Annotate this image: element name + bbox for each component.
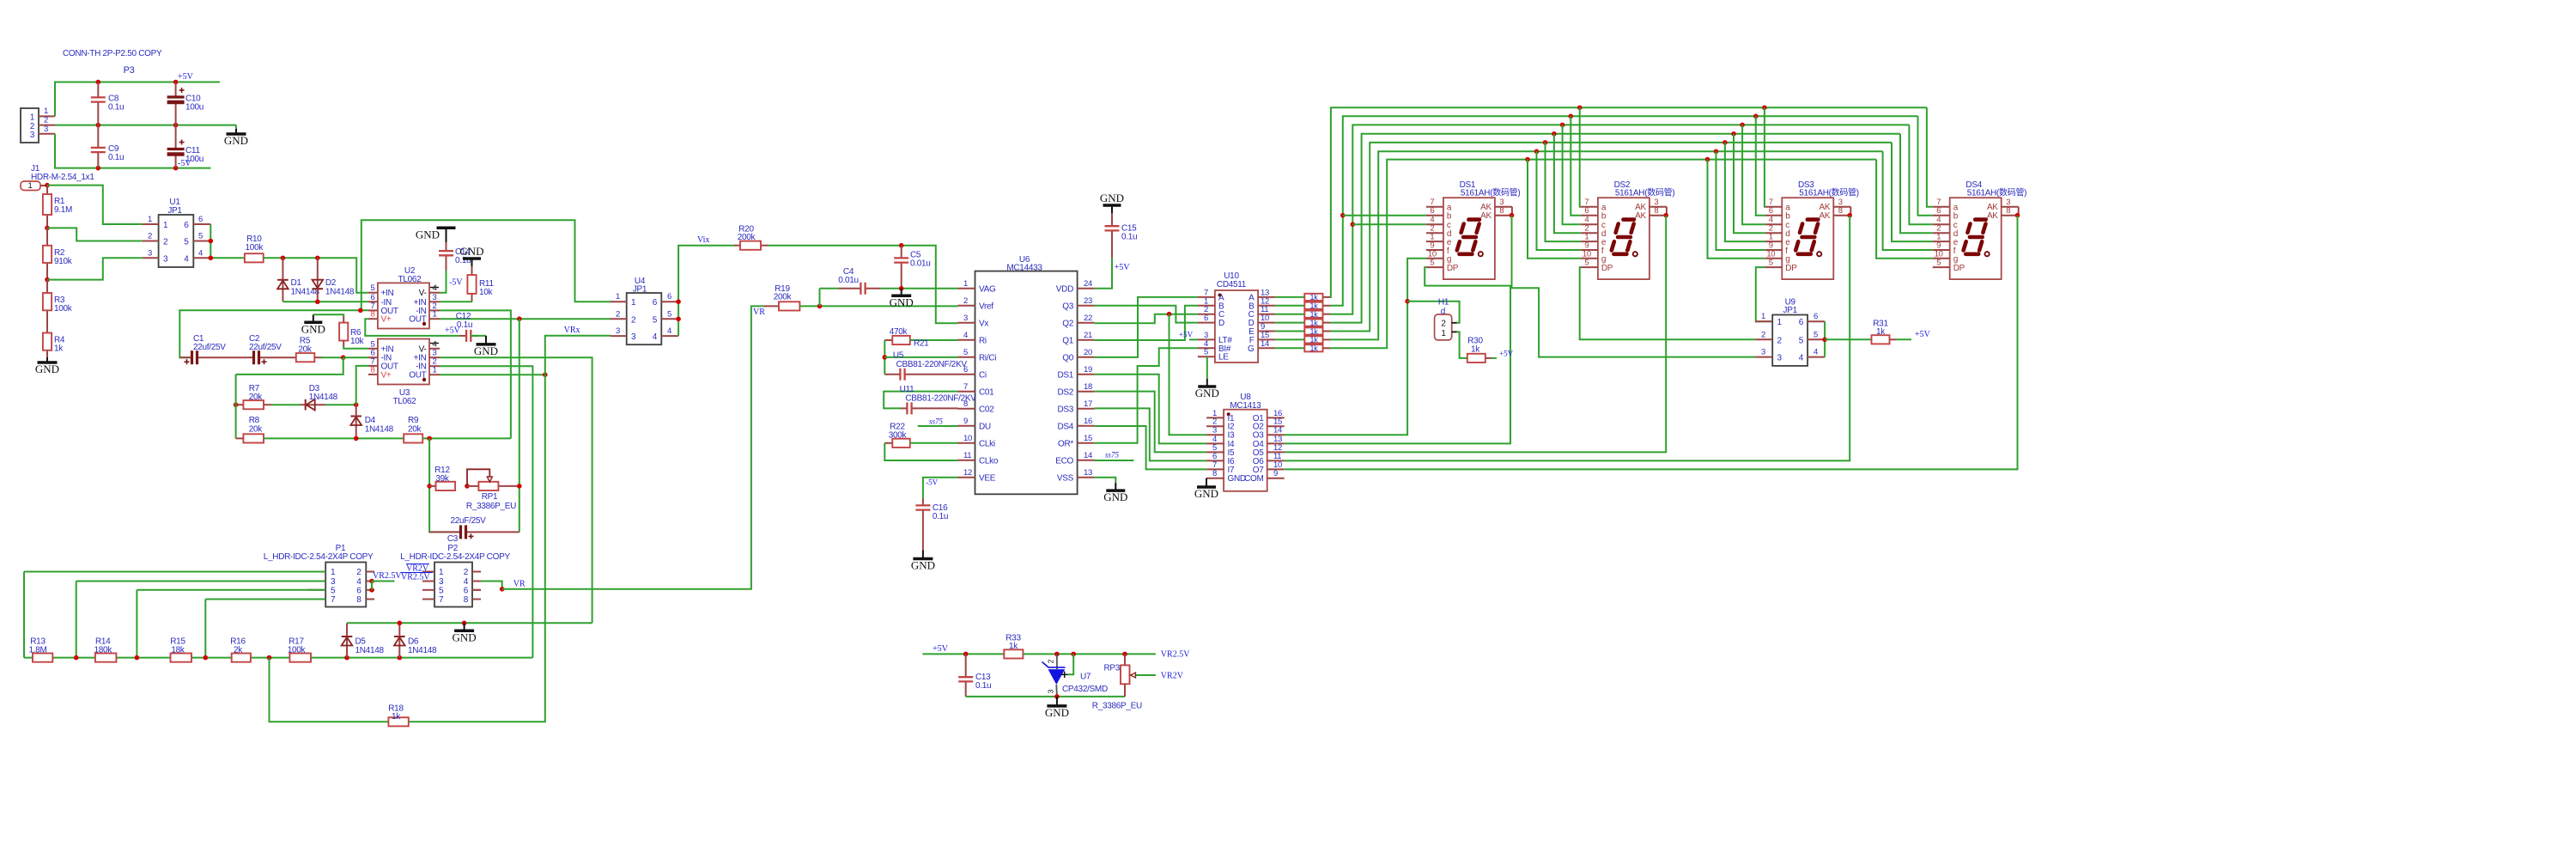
resistor R33 [1004, 649, 1023, 658]
svg-text:VRx: VRx [564, 326, 580, 335]
resistor R19 [763, 305, 779, 307]
svg-text:2: 2 [464, 568, 469, 577]
resistor R20 [734, 245, 740, 247]
pin 14 of U6 [1078, 460, 1095, 461]
wire U10 output A to bus [1275, 296, 1304, 298]
junction [45, 183, 50, 188]
svg-text:2: 2 [1777, 336, 1783, 345]
svg-text:6: 6 [1204, 314, 1208, 323]
wire R2-R3 node to U1 pin3 [47, 258, 143, 279]
pin 16 of U8 [1267, 417, 1285, 418]
svg-text:C02: C02 [979, 405, 994, 414]
pin 10 of DS1 [1426, 258, 1443, 259]
capacitor C13 [965, 654, 967, 677]
wire R22 to CLko [884, 443, 957, 460]
ground [235, 125, 237, 129]
pin 2 of U2 [429, 309, 440, 311]
pin 1 of U8 [1206, 417, 1224, 418]
pin 5 of DS3 [1765, 266, 1782, 268]
svg-text:Q3: Q3 [1062, 302, 1073, 311]
wire U3 OUT right VRx [440, 374, 545, 375]
pin 11 of U6 [958, 460, 975, 461]
wire P1 pin4 to VR2.5V [372, 581, 394, 582]
svg-text:DP: DP [1601, 264, 1613, 273]
junction [500, 587, 505, 592]
ground above C14 [446, 228, 447, 242]
digit glyph of DS2 [1612, 220, 1634, 254]
junction [96, 80, 101, 85]
svg-text:1: 1 [1441, 329, 1446, 338]
digit glyph of DS4 [1964, 220, 1986, 254]
wire Q1 to U10 B [1095, 306, 1198, 340]
svg-text:1k: 1k [1876, 327, 1886, 337]
wire bus F tap to DS3 f [1714, 149, 1719, 155]
svg-text:ss75: ss75 [1105, 451, 1120, 460]
pin 6 of U10 [1198, 322, 1215, 324]
diode D4 [355, 417, 357, 439]
svg-text:1: 1 [28, 181, 33, 191]
svg-text:1: 1 [331, 568, 336, 577]
junction [209, 256, 214, 261]
wire bus F tap to DS2 f [1534, 149, 1540, 155]
svg-text:100u: 100u [185, 103, 204, 113]
svg-text:b: b [1601, 212, 1607, 222]
wire U9 pins 6-5-4 tie [1824, 321, 1826, 356]
svg-text:1N4148: 1N4148 [408, 646, 437, 655]
svg-text:8: 8 [1654, 206, 1658, 216]
pin 7 of U3 [368, 365, 378, 367]
wire VR line to R19 [502, 306, 764, 588]
wire input divider chain [24, 657, 532, 659]
svg-text:5: 5 [371, 283, 375, 293]
pin 20 of U6 [1078, 356, 1095, 358]
capacitor C14 [446, 242, 447, 251]
svg-text:D5: D5 [355, 637, 367, 647]
wire R10 output [264, 258, 368, 292]
pin 17 of U6 [1078, 408, 1095, 410]
pin 2 of U8 [1206, 425, 1224, 427]
svg-text:GND: GND [1194, 487, 1218, 500]
pin 1 of U1 [143, 223, 159, 225]
junction [899, 286, 904, 291]
svg-text:11: 11 [963, 451, 971, 460]
svg-text:AK: AK [1480, 211, 1492, 221]
wire U2 OUT to U4 pin2 [440, 318, 611, 320]
ground at VAG [901, 289, 902, 296]
pin 5 of U10 [1198, 356, 1215, 357]
pin 2 of P3 [39, 125, 55, 126]
svg-text:H1: H1 [1438, 298, 1449, 308]
svg-text:6: 6 [1936, 206, 1941, 216]
svg-text:1k: 1k [1310, 344, 1319, 353]
svg-text:b: b [1953, 212, 1959, 222]
pin 6 of U4 [661, 301, 678, 302]
wire bus C tap to DS1 c [1351, 222, 1356, 227]
pin 6 of U9 [1807, 320, 1825, 322]
svg-text:DP: DP [1953, 264, 1965, 273]
pin 4 of U4 [661, 335, 678, 337]
svg-text:Vref: Vref [979, 302, 993, 311]
svg-text:TL062: TL062 [393, 397, 417, 406]
wire bus G tap to DS2 g [1525, 157, 1530, 162]
pin 8 of P1 [366, 599, 374, 600]
svg-text:1N4148: 1N4148 [325, 288, 355, 297]
svg-text:GND: GND [35, 362, 59, 375]
pin 11 of U8 [1267, 460, 1285, 461]
svg-text:8: 8 [464, 595, 469, 605]
pin 6 of DS4 [1933, 215, 1950, 216]
resistor 1k segment 1 [1304, 294, 1322, 301]
pin 8 of U8 [1206, 478, 1224, 479]
junction [354, 402, 359, 407]
svg-text:2: 2 [148, 232, 152, 241]
pin 12 of U10 [1258, 305, 1275, 307]
junction [45, 226, 50, 231]
pin 1 of U4 [611, 301, 627, 302]
pin 5 of U2 [368, 292, 378, 294]
svg-text:5: 5 [653, 315, 658, 325]
junction [398, 621, 403, 626]
junction [173, 80, 179, 85]
pin 9 of DS4 [1933, 249, 1950, 251]
resistor 1k segment 6 [1304, 336, 1322, 343]
wire U10 output B to bus [1275, 305, 1304, 307]
pin 7 of DS4 [1933, 206, 1950, 208]
svg-text:2: 2 [963, 296, 968, 306]
svg-text:6: 6 [1769, 206, 1773, 216]
pin 7 of U2 [368, 309, 378, 311]
wire DS1 to U8 I4 [1095, 375, 1207, 444]
junction [204, 655, 209, 661]
resistor R30 [1467, 354, 1485, 362]
svg-text:OUT: OUT [409, 371, 426, 381]
svg-text:b: b [1447, 212, 1452, 222]
svg-text:0.01u: 0.01u [910, 259, 931, 269]
svg-text:3: 3 [1047, 689, 1055, 693]
wire Vref line [799, 305, 957, 307]
svg-text:CLko: CLko [979, 456, 999, 466]
wire bus B tap to DS2 b [1569, 114, 1574, 119]
svg-text:0.1u: 0.1u [457, 320, 472, 330]
pin 4 of U1 [193, 257, 210, 259]
ground at U8 [1206, 478, 1207, 480]
resistor 1k segment 5 [1304, 327, 1322, 334]
pin 3 of U4 [611, 335, 627, 337]
pin 24 of U6 [1078, 288, 1095, 289]
pin 23 of U6 [1078, 305, 1095, 307]
svg-text:GND: GND [453, 630, 477, 643]
svg-text:1k: 1k [1310, 327, 1319, 336]
svg-text:AK: AK [1820, 211, 1831, 221]
pin 1 of U2 [429, 318, 440, 320]
wire D5 D6 top rail [347, 622, 592, 624]
junction [281, 256, 286, 261]
wire AK2 to U8 O5 [1285, 216, 1667, 453]
capacitor C2 [248, 356, 254, 358]
pin 5 of U9 [1807, 338, 1825, 340]
svg-text:3: 3 [30, 131, 35, 140]
pin 3 of DS3 [1833, 206, 1850, 208]
wire segment bus F [1330, 151, 1883, 339]
pin 14 of U10 [1258, 347, 1275, 349]
junction [427, 484, 432, 489]
svg-text:9.1M: 9.1M [54, 205, 72, 215]
wire VAG line [881, 288, 958, 289]
junction [465, 484, 470, 489]
svg-text:7: 7 [439, 595, 444, 605]
wire R1-R2 node to U1 pin2 [47, 228, 143, 241]
wire Ri/Ci line [884, 356, 957, 358]
pin 7 of DS1 [1426, 206, 1443, 208]
junction [341, 355, 346, 360]
svg-text:D4: D4 [365, 416, 376, 425]
svg-text:C3: C3 [447, 534, 459, 544]
pin 10 of DS3 [1765, 258, 1782, 259]
wire C01 to C02 loop [884, 392, 957, 409]
wire bus E end to DS4 e [1892, 143, 1933, 241]
svg-text:ss75: ss75 [929, 417, 944, 426]
resistor R7 [236, 404, 244, 405]
svg-text:+IN: +IN [381, 344, 394, 354]
svg-text:1: 1 [433, 366, 437, 375]
resistor R15 [171, 654, 192, 662]
svg-text:V+: V+ [381, 370, 392, 380]
junction [344, 655, 349, 661]
svg-text:1N4148: 1N4148 [365, 425, 394, 435]
wire U2 OUT down to RP1 [519, 319, 520, 532]
junction [369, 588, 374, 593]
resistor R8 [236, 437, 244, 439]
svg-text:2: 2 [616, 309, 620, 319]
junction [45, 277, 50, 283]
wire U3 +IN right to D5 D6 top rail [440, 357, 592, 623]
resistor 1k segment 7 [1304, 344, 1322, 351]
svg-text:300k: 300k [889, 431, 908, 441]
wire U10 output C to bus [1275, 314, 1304, 315]
wire GND mid rail [55, 125, 236, 126]
svg-text:VR2.5V: VR2.5V [373, 571, 402, 581]
wire bus A tap to DS3 a [1762, 106, 1767, 111]
svg-text:V-: V- [419, 289, 427, 298]
svg-text:GND: GND [416, 228, 440, 241]
pin 5 of DS2 [1581, 266, 1598, 268]
svg-text:R21: R21 [914, 339, 929, 349]
pin 5 of P1 [308, 589, 325, 591]
pin 3 of U1 [143, 257, 159, 259]
svg-text:3: 3 [1777, 354, 1783, 363]
svg-text:7: 7 [963, 382, 968, 392]
wire +5V feed line [922, 653, 1004, 655]
svg-text:15: 15 [1084, 434, 1092, 443]
svg-text:GND: GND [301, 322, 325, 335]
pin 4 of U9 [1807, 356, 1825, 358]
svg-text:3: 3 [44, 125, 48, 134]
svg-text:Q1: Q1 [1062, 336, 1073, 345]
svg-text:R_3386P_EU: R_3386P_EU [466, 502, 516, 511]
wire R6 top to ground [313, 314, 343, 317]
pin 1 of DS3 [1765, 241, 1782, 242]
resistor R1 [46, 186, 48, 194]
junction [462, 621, 467, 626]
svg-text:180k: 180k [94, 646, 112, 655]
svg-text:VR: VR [513, 580, 526, 589]
capacitor C5 [901, 246, 902, 259]
pin 5 of U8 [1206, 451, 1224, 453]
svg-text:AK: AK [1987, 211, 1998, 221]
svg-text:D1: D1 [291, 278, 302, 288]
pin 4 of DS4 [1933, 223, 1950, 225]
resistor R16 [232, 654, 251, 662]
pin 5 of U3 [368, 348, 378, 350]
pin 2 of P2 [472, 571, 481, 573]
svg-text:1: 1 [439, 568, 444, 577]
svg-text:DS2: DS2 [1057, 387, 1073, 397]
pin 2 of DS2 [1581, 232, 1598, 234]
svg-text:0.01u: 0.01u [838, 276, 859, 285]
pin 13 of U6 [1078, 477, 1095, 478]
svg-text:8: 8 [1499, 206, 1504, 216]
wire Q2 to U10 C [1095, 314, 1198, 324]
wire U10 output E to bus [1275, 331, 1304, 332]
svg-text:6: 6 [356, 586, 361, 595]
svg-text:8: 8 [1838, 206, 1843, 216]
svg-text:1k: 1k [1310, 319, 1319, 327]
wire Q0 to U10 A [1095, 297, 1198, 357]
svg-text:VR2V: VR2V [1161, 672, 1184, 681]
svg-text:8: 8 [371, 310, 375, 320]
wire AK tie of DS2 [1666, 207, 1668, 216]
svg-text:GND: GND [459, 245, 483, 258]
diode D3 [264, 404, 271, 405]
svg-text:4: 4 [963, 331, 968, 340]
wire P2 pin4 to VR line [481, 582, 502, 589]
svg-text:18: 18 [1084, 382, 1092, 392]
svg-text:ECO: ECO [1055, 456, 1073, 466]
ground [471, 335, 486, 337]
pin 6 of U1 [193, 223, 210, 225]
junction [543, 372, 548, 377]
svg-text:R8: R8 [249, 416, 260, 425]
pin 18 of U6 [1078, 391, 1095, 393]
svg-text:0.1u: 0.1u [108, 153, 124, 162]
svg-text:5: 5 [1584, 259, 1589, 268]
svg-text:5: 5 [1204, 348, 1208, 357]
svg-text:2: 2 [1047, 659, 1055, 663]
pin 9 of DS1 [1426, 249, 1443, 251]
wire ECO net ss75 [1095, 460, 1134, 461]
svg-text:2: 2 [44, 116, 48, 125]
wire U3 OUT-left to D3/D4 [356, 366, 368, 405]
connector P3 [21, 108, 39, 143]
wire U2 +IN to U4 pin1 loop [361, 220, 611, 310]
wire U2 V+ to +5V C12 [365, 319, 459, 336]
svg-text:5: 5 [667, 309, 671, 319]
svg-text:+5V: +5V [1115, 263, 1131, 272]
junction [315, 256, 320, 261]
svg-text:1k: 1k [1310, 336, 1319, 344]
svg-text:2: 2 [631, 315, 636, 325]
junction [1054, 694, 1060, 699]
wire VEE to C16 [923, 478, 958, 498]
pin 4 of U8 [1206, 442, 1224, 444]
pin 9 of U8 [1267, 478, 1285, 479]
svg-text:3: 3 [148, 248, 152, 258]
shunt reference U7 CP432 [1056, 654, 1058, 669]
svg-text:10: 10 [963, 434, 972, 443]
wire bus F end to DS4 f [1883, 151, 1933, 250]
svg-text:8: 8 [356, 595, 361, 605]
wire R6 bottom to U3 +IN [343, 346, 368, 349]
wire R7-R8 left tie [235, 375, 237, 439]
svg-text:23: 23 [1084, 296, 1092, 306]
svg-text:2: 2 [1441, 320, 1446, 329]
pin 10 of DS4 [1933, 258, 1950, 259]
pin 6 of DS2 [1581, 215, 1598, 216]
wire H1 pin2 tap [1407, 302, 1460, 323]
wire AK tie of DS1 [1511, 207, 1513, 216]
pin 5 of U6 [958, 356, 975, 358]
trimmer RP3 [1124, 654, 1126, 665]
svg-text:5: 5 [331, 586, 336, 595]
wire bus D tap to DS3 d [1731, 131, 1736, 137]
svg-text:+5V: +5V [178, 72, 194, 82]
wire segment bus A [1330, 107, 1927, 297]
junction [96, 123, 101, 128]
resistor R6 [339, 323, 348, 341]
pin 9 of DS2 [1581, 249, 1598, 251]
svg-text:DP: DP [1785, 264, 1797, 273]
svg-text:1: 1 [44, 107, 48, 116]
svg-text:1k: 1k [392, 712, 401, 722]
pin 4 of U3 [429, 348, 440, 350]
svg-text:RP1: RP1 [482, 492, 498, 502]
svg-text:1k: 1k [1009, 642, 1018, 651]
pin 2 of U9 [1755, 338, 1772, 340]
ground above C15 [1111, 205, 1113, 213]
junction [1405, 299, 1410, 304]
resistor 1k segment 4 [1304, 320, 1322, 326]
diode D2 [317, 258, 319, 289]
resistor R10 [245, 253, 264, 262]
svg-text:0.1u: 0.1u [1121, 233, 1137, 242]
svg-text:DP: DP [1447, 264, 1459, 273]
pin 13 of U8 [1267, 442, 1285, 444]
svg-text:5: 5 [371, 339, 375, 349]
pin 9 of U10 [1258, 331, 1275, 332]
svg-text:Ri/Ci: Ri/Ci [979, 353, 996, 362]
pin 7 of DS3 [1765, 206, 1782, 208]
pin 8 of DS1 [1495, 215, 1512, 216]
trimmer RP1 [467, 485, 478, 487]
junction [398, 655, 403, 661]
svg-text:CBB81-220NF/2KV: CBB81-220NF/2KV [905, 394, 976, 404]
junction [1167, 312, 1172, 317]
pin 8 of U2 [368, 318, 378, 320]
capacitor C4 [839, 288, 860, 289]
wire P2 pin6 stub [472, 589, 481, 591]
pin 8 of DS2 [1649, 215, 1667, 216]
svg-text:Ri: Ri [979, 336, 987, 345]
junction [517, 484, 522, 489]
wire R8 D4 R9 row [264, 437, 404, 439]
wire bus D tap to DS2 d [1552, 131, 1557, 137]
svg-text:RP3: RP3 [1103, 664, 1120, 673]
pin 6 of U8 [1206, 460, 1224, 461]
pin 4 of P2 [472, 581, 481, 582]
svg-text:1: 1 [433, 310, 437, 320]
pin 8 of U3 [368, 374, 378, 375]
pin 7 of U10 [1198, 296, 1215, 298]
